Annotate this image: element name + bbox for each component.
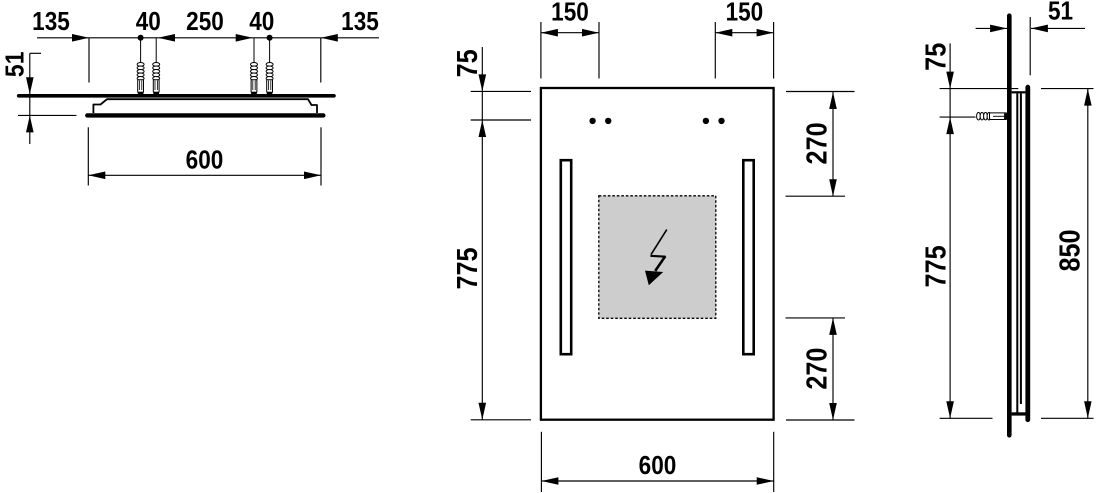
extension line right edge	[320, 38, 322, 83]
lightning bolt arrowhead	[645, 271, 663, 286]
lightning bolt zigzag	[650, 255, 665, 258]
dim dot left	[138, 35, 144, 41]
svg-text:51: 51	[1048, 0, 1073, 26]
dowel S1 (top view)	[137, 38, 144, 95]
dowel (side view)	[977, 112, 1007, 120]
svg-text:40: 40	[249, 8, 274, 37]
dim 51 (side view)	[976, 17, 1085, 75]
arrow 600 left	[88, 172, 105, 180]
sensor dot 4	[718, 118, 724, 124]
electrical connection box (gray dashed)	[599, 196, 716, 318]
dim 150 left	[541, 22, 599, 79]
arrow 135 left	[72, 34, 89, 42]
svg-text:150: 150	[551, 0, 589, 27]
sensor dot 1	[589, 118, 595, 124]
top connector (side view)	[1012, 91, 1026, 93]
dim 850 (side view)	[1041, 89, 1094, 419]
dim 75 / 775 (side view)	[940, 43, 1019, 418]
bottom connector (side view)	[1012, 412, 1027, 415]
arrow 51 top	[26, 77, 34, 94]
svg-text:270: 270	[801, 122, 833, 164]
svg-text:75: 75	[920, 43, 952, 71]
arrow 250 right	[236, 34, 253, 42]
sensor dot 3	[703, 118, 709, 124]
svg-text:775: 775	[451, 247, 483, 289]
dim 270 top right	[786, 92, 855, 197]
dim 51 (top view)	[18, 53, 76, 144]
arrow 40 left pair	[158, 34, 175, 42]
frame profile outline (top view)	[93, 99, 317, 113]
wall line (side view)	[1007, 16, 1012, 436]
frame bottom bar (top view)	[87, 113, 323, 117]
dim 600 front	[541, 432, 773, 492]
mirror body (front view)	[541, 88, 774, 420]
lamp right (front view)	[743, 160, 753, 354]
svg-text:135: 135	[341, 8, 379, 37]
svg-text:270: 270	[801, 348, 833, 390]
svg-text:600: 600	[639, 452, 677, 481]
arrow 600 right	[304, 172, 321, 180]
lightning bolt stroke top	[651, 230, 667, 255]
extension line left edge	[88, 38, 90, 83]
svg-text:135: 135	[32, 8, 70, 37]
arrow 51 bottom	[26, 115, 34, 132]
svg-text:850: 850	[1054, 229, 1086, 271]
top dimension chain line	[37, 38, 379, 83]
svg-text:600: 600	[186, 146, 224, 175]
dim 600 (top view)	[88, 127, 321, 185]
lamp left (front view)	[561, 160, 571, 354]
glass line (side view)	[1025, 87, 1030, 420]
svg-text:250: 250	[186, 8, 224, 37]
sensor dot 2	[605, 118, 611, 124]
mirror glass (top view, section)	[19, 94, 334, 98]
arrow 135 right	[321, 34, 338, 42]
dowel S3 (top view)	[251, 38, 258, 95]
svg-text:150: 150	[726, 0, 764, 27]
dim 150 right	[715, 22, 773, 79]
svg-text:775: 775	[920, 245, 952, 287]
mounting rail line (side view)	[1020, 93, 1022, 404]
svg-text:75: 75	[451, 49, 483, 77]
backplate line (side view)	[1016, 93, 1018, 413]
dim 75 / 775 left of front view	[471, 47, 531, 420]
dim 270 bottom right	[786, 318, 855, 420]
svg-text:40: 40	[136, 8, 161, 37]
svg-text:51: 51	[1, 52, 30, 78]
dim dot right	[267, 35, 273, 41]
dowel S2 (top view)	[153, 38, 160, 95]
dowel S4 (top view)	[266, 38, 273, 95]
